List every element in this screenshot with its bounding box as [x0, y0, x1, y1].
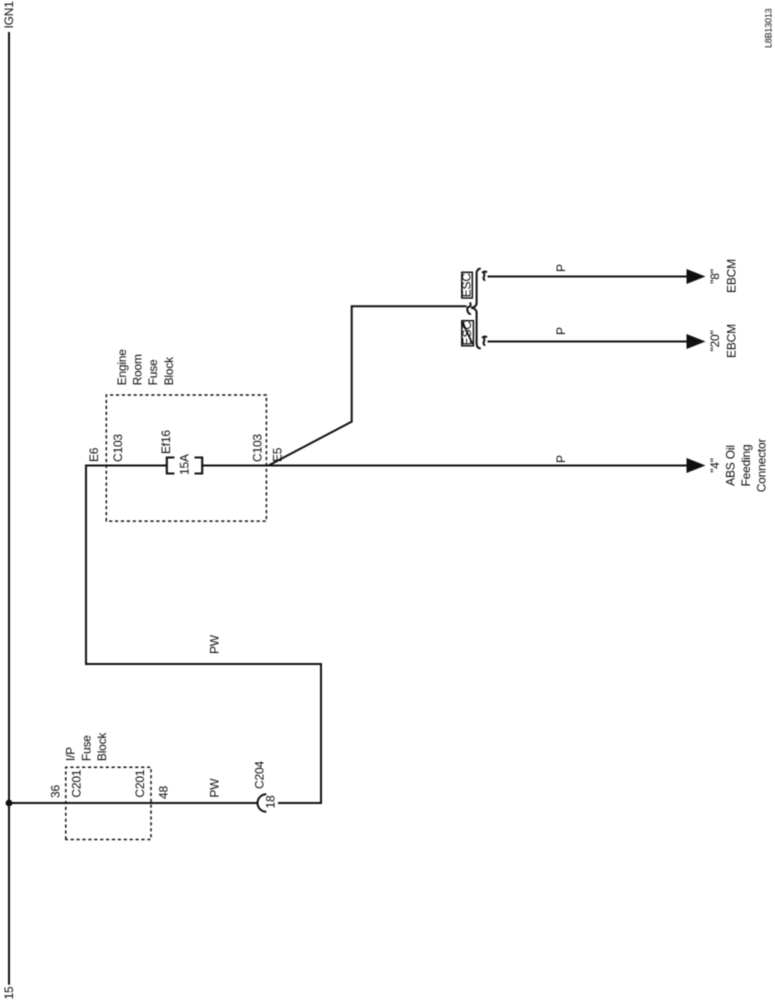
svg-text:E6: E6 — [87, 447, 101, 462]
option box ESC crossed out — [462, 321, 474, 346]
wire rail to C204 — [9, 802, 258, 804]
svg-text:Feeding: Feeding — [739, 445, 753, 487]
strike line through ESC box — [462, 321, 472, 344]
arrow to EBCM 20 — [687, 334, 706, 349]
option squiggle wire end — [467, 302, 471, 314]
svg-text:18: 18 — [264, 795, 278, 808]
svg-text:48: 48 — [157, 786, 171, 799]
svg-text:EBCM: EBCM — [725, 324, 739, 358]
svg-text:PW: PW — [208, 634, 222, 654]
svg-text:Engine: Engine — [115, 349, 129, 386]
svg-text:"4": "4" — [708, 458, 722, 473]
svg-text:IGN1: IGN1 — [2, 1, 16, 29]
option box ESC — [462, 272, 473, 298]
option squiggle branch 20 start — [483, 337, 487, 346]
node IGN1 rail — [8, 32, 10, 985]
svg-text:C103: C103 — [251, 434, 265, 462]
wire branch to EBCM 8 — [488, 276, 688, 278]
fuse block Engine Room dashed box — [106, 395, 266, 521]
svg-text:P: P — [554, 264, 568, 272]
svg-text:Block: Block — [162, 356, 176, 386]
junction dot on IGN1 rail — [6, 800, 13, 807]
svg-text:EBCM: EBCM — [725, 259, 739, 293]
fuse Ef16 bottom bracket — [195, 458, 203, 474]
wire diagonal from E5 — [269, 306, 467, 465]
svg-text:P: P — [554, 327, 568, 335]
arrow to EBCM 8 — [687, 269, 706, 284]
svg-text:PW: PW — [208, 778, 222, 798]
svg-text:C103: C103 — [111, 434, 125, 462]
svg-text:36: 36 — [49, 785, 63, 798]
svg-text:ABS Oil: ABS Oil — [724, 445, 738, 486]
svg-text:"8": "8" — [708, 269, 722, 284]
svg-text:15A: 15A — [178, 454, 192, 475]
wire fuse to ABS arrow — [202, 465, 687, 467]
svg-text:Connector: Connector — [755, 439, 769, 493]
fuse block I/P dashed box — [66, 767, 151, 839]
svg-text:Room: Room — [131, 354, 145, 385]
wire branch to EBCM 20 — [488, 341, 688, 343]
svg-text:Fuse: Fuse — [146, 359, 160, 385]
option squiggle branch 8 start — [483, 272, 487, 281]
fuse Ef16 top bracket — [167, 458, 175, 474]
svg-text:Ef16: Ef16 — [159, 430, 173, 454]
svg-text:ESC: ESC — [460, 273, 474, 298]
svg-text:I/P: I/P — [64, 747, 78, 761]
wire C204 to corner — [86, 466, 321, 804]
svg-text:Block: Block — [95, 732, 109, 762]
svg-text:C201: C201 — [70, 769, 84, 797]
svg-text:C204: C204 — [253, 761, 267, 789]
connector C204 half circle — [257, 794, 266, 812]
svg-text:L8B13013: L8B13013 — [764, 8, 774, 48]
arrow to ABS Oil Feeding Connector — [687, 458, 706, 473]
svg-text:C201: C201 — [133, 769, 147, 797]
svg-text:15: 15 — [2, 986, 16, 999]
svg-text:P: P — [554, 455, 568, 463]
svg-text:Fuse: Fuse — [79, 735, 93, 761]
svg-text:"20": "20" — [708, 330, 722, 351]
option brace — [471, 269, 481, 349]
